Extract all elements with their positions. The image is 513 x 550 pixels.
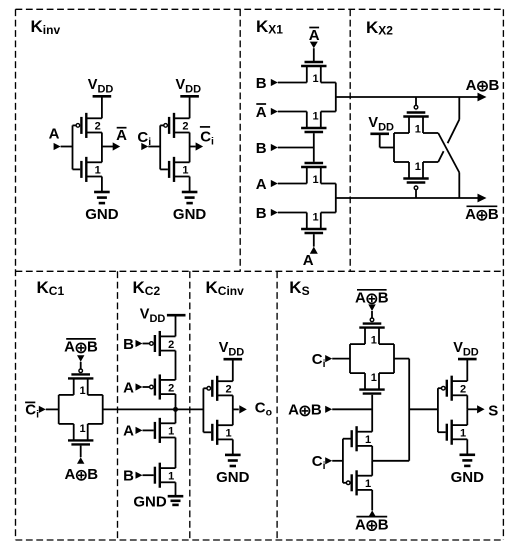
wire S1 upper flare: [350, 343, 394, 345]
wire series rail segments (K_C2): [175, 351, 177, 495]
wire output node to nmos drain (inverter A): [101, 147, 103, 163]
label S (K_S): [488, 402, 498, 419]
svg-text:GND: GND: [451, 469, 485, 486]
transmission gate X1b upper fet channel: [301, 166, 326, 168]
Vdd supply (K_X2 keeper): [368, 115, 394, 134]
transmission gate C1 upper fet channel: [68, 377, 93, 379]
svg-text:B: B: [488, 77, 499, 94]
wire pmos source to output node (inverter A): [101, 133, 103, 147]
label size 2 (inverter Co pull-up): [226, 384, 232, 396]
label size 1 (K_C2 A1): [168, 426, 174, 438]
transmission gate S1 upper gate bar: [363, 322, 382, 324]
svg-text:B: B: [488, 206, 499, 223]
wire S1 source/drain stubs upper: [365, 328, 379, 345]
nmos inverter Co pull-down (size 1): [212, 420, 233, 445]
label size 1 (inverter Ci pull-down): [182, 165, 188, 177]
svg-text:A: A: [465, 206, 476, 223]
wire X1b source/drain stubs lower: [307, 213, 321, 230]
wire C1 source/drain stubs lower: [74, 424, 88, 441]
wire nmos source to ground (inverter S): [466, 439, 468, 455]
svg-text:1: 1: [168, 426, 174, 438]
label AxorB (K_S): [288, 402, 322, 419]
heading K_C1: [37, 278, 65, 298]
svg-text:1: 1: [460, 428, 466, 440]
wire cross-couple lower-right to AxorB line (K_X2): [438, 97, 459, 162]
transmission gate X1b lower gate bar: [305, 232, 324, 234]
svg-text:A: A: [256, 176, 267, 193]
transmission gate X1a lower gate bar: [305, 131, 324, 133]
wire S1 source/drain stubs lower: [365, 373, 379, 390]
wire X1b source/drain stubs upper: [307, 167, 321, 184]
wire gate input (inverter A): [73, 125, 81, 169]
svg-text:1: 1: [365, 478, 371, 490]
wire gate input Ci lower (K_S): [343, 439, 351, 483]
label B (K_C2 row 1): [123, 336, 134, 353]
wire TG1 lower gate to TG2 drain through AxorB node (K_S): [371, 395, 373, 432]
nmos K_C2 B1 (size 1): [155, 463, 176, 488]
label Ci upper (K_S): [312, 351, 326, 370]
node junction carry (K_C2): [173, 407, 178, 412]
svg-text:B: B: [87, 466, 98, 483]
output wire and arrow (inverter A): [102, 142, 120, 150]
svg-text:1: 1: [182, 165, 188, 177]
label size 2 (inverter Ci pull-up): [182, 121, 188, 133]
svg-text:1: 1: [79, 385, 85, 397]
wire S1 lower flare: [350, 372, 394, 374]
svg-text:2: 2: [460, 384, 466, 396]
heading K_X1: [256, 17, 283, 37]
label A (K_C2 row 3): [123, 423, 134, 440]
svg-text:1: 1: [415, 161, 421, 173]
transmission gate X1b lower fet channel: [301, 228, 326, 230]
wire C1 right terminal: [102, 395, 104, 424]
label size 1 (X1b lower): [313, 212, 319, 224]
node arrow Abar into gate (K_X1): [310, 42, 318, 61]
svg-text:B: B: [311, 402, 322, 419]
wire X2 source/drain stubs upper: [409, 117, 423, 134]
wire gate input (inverter Ci): [160, 125, 168, 169]
label size 2 (K_C2 B2): [168, 339, 174, 351]
transmission gate C1 lower fet channel: [68, 439, 93, 441]
label size 1 (inverter A pull-down): [95, 165, 101, 177]
wire gate input A (K_C2 1): [136, 427, 154, 434]
nmos K_C2 A1 (size 1): [155, 418, 176, 443]
input arrow (inverter Ci): [141, 143, 160, 150]
label size 1 (C1 lower): [79, 423, 85, 435]
wire TG2 mid junction vertical (K_S): [371, 461, 373, 476]
label A (bottom control K_X1): [303, 252, 314, 269]
svg-text:A: A: [466, 77, 477, 94]
heading K_C2: [133, 278, 161, 298]
svg-text:B: B: [378, 290, 389, 307]
node arrow AxnorB with bubble (K_C1): [77, 355, 84, 373]
Vdd supply (inverter Ci): [176, 77, 202, 96]
wire X1a source/drain stubs lower: [307, 112, 321, 129]
wire input B5 (K_X1): [271, 209, 307, 216]
wire gate input B (K_C2 2): [136, 340, 150, 347]
svg-text:1: 1: [226, 428, 232, 440]
node arrow AxnorB bottom (K_S): [368, 490, 376, 517]
dashed divider K_inv/K_X1: [239, 9, 241, 271]
svg-text:A: A: [123, 379, 134, 396]
label Abar (top control K_X1): [309, 27, 320, 44]
wire gate input (inverter Co): [203, 388, 211, 432]
transmission gate X1a upper fet channel: [301, 65, 326, 67]
wire pmos source to output node (inverter S): [466, 395, 468, 409]
label A (K_C2 row 2): [123, 379, 134, 396]
label Cibar (K_C1): [25, 401, 39, 420]
pmos inverter A pull-up (size 2): [76, 113, 102, 138]
svg-text:B: B: [123, 468, 134, 485]
nmos inverter A pull-down (size 1): [81, 157, 102, 182]
heading K_inv: [31, 17, 61, 37]
svg-text:GND: GND: [133, 494, 167, 511]
svg-text:B: B: [123, 336, 134, 353]
svg-text:1: 1: [168, 471, 174, 483]
pmos inverter Co pull-up (size 2): [207, 376, 233, 401]
wire X2 left terminal: [393, 133, 395, 162]
label A4 (K_X1): [256, 176, 267, 193]
dashed divider top/bottom rows: [16, 270, 504, 272]
Vdd supply (K_C2): [140, 306, 186, 325]
transmission gate X1a upper gate bar: [305, 61, 324, 63]
svg-text:A: A: [355, 516, 366, 533]
nmos K_S pass upper (size 1): [352, 426, 373, 451]
label size 1 (K_S pass upper): [365, 434, 371, 446]
svg-text:B: B: [256, 140, 267, 157]
svg-text:B: B: [87, 339, 98, 356]
wire X1b lower flare: [307, 212, 336, 214]
wire bus vertical (K_S): [408, 359, 410, 461]
ground (inverter Ci): [173, 192, 207, 223]
wire input B1 (K_X1): [271, 79, 307, 86]
wire pmos source to output node (inverter Ci): [189, 133, 191, 147]
wire X2 lower flare: [394, 161, 438, 163]
label input C (inverter Ci): [137, 129, 151, 148]
svg-text:A: A: [256, 104, 267, 121]
wire output node to nmos drain (inverter Co): [232, 409, 234, 425]
label size 1 (inverter Co pull-down): [226, 428, 232, 440]
svg-text:A: A: [123, 423, 134, 440]
label size 2 (inverter A pull-up): [95, 121, 101, 133]
dashed divider K_X1/K_X2: [349, 9, 351, 271]
wire X2 source/drain stubs lower: [409, 162, 423, 179]
label size 2 (inverter S pull-up): [460, 384, 466, 396]
svg-text:GND: GND: [85, 206, 119, 223]
svg-text:1: 1: [313, 174, 319, 186]
wire nmos source to ground (inverter Ci): [189, 177, 191, 193]
net carry mid rail (K_C1 output to K_Cinv input): [103, 408, 204, 410]
wire output node to nmos drain (inverter Ci): [189, 147, 191, 163]
label B1 (K_X1): [256, 75, 267, 92]
svg-text:1: 1: [79, 423, 85, 435]
label AxnorB (top control K_C1): [64, 339, 98, 356]
node arrow with bubble (K_S TG1 top): [368, 304, 375, 322]
svg-text:GND: GND: [216, 469, 250, 486]
svg-text:A: A: [49, 125, 60, 142]
transmission gate X1a lower fet channel: [301, 127, 326, 129]
wire C1 upper flare: [59, 394, 103, 396]
svg-text:1: 1: [313, 111, 319, 123]
wire C1 source/drain stubs upper: [74, 378, 88, 395]
svg-text:S: S: [488, 402, 498, 419]
label size 1 (X1b upper): [313, 174, 319, 186]
label output Abar (inverter A): [116, 127, 127, 144]
label output Cbar (inverter Ci): [200, 127, 214, 148]
dashed divider K_Cinv/K_S: [276, 271, 278, 540]
wire C1 left terminal: [58, 395, 60, 424]
dashed divider K_C2/K_Cinv: [189, 271, 191, 540]
Vdd supply (inverter A): [88, 77, 114, 96]
wire gate link X1a-lower to X1b-upper through B3: [313, 133, 315, 162]
wire lower gate to AxnorB line with bubble (K_X2): [414, 186, 418, 198]
nmos inverter Ci pull-down (size 1): [169, 157, 190, 182]
label Abar2 (K_X1): [256, 104, 267, 121]
wire output node to nmos drain (inverter S): [466, 409, 468, 425]
wire input B3 (K_X1): [271, 144, 314, 151]
wire S1 left terminal: [349, 344, 351, 373]
svg-text:2: 2: [168, 339, 174, 351]
net A xor B (top line): [336, 93, 487, 102]
svg-text:1: 1: [95, 165, 101, 177]
wire X1a upper flare: [307, 82, 336, 84]
svg-text:1: 1: [371, 372, 377, 384]
wire bus tap to inverter input (K_S): [409, 408, 438, 410]
wire input A4 (K_X1): [271, 180, 307, 187]
transmission gate S1 upper fet channel: [359, 326, 384, 328]
label size 1 (K_C2 B1): [168, 471, 174, 483]
wire upper gate to AxorB line with bubble (K_X2): [414, 97, 418, 113]
output wire and arrow Co (K_Cinv): [233, 405, 247, 413]
wire X1b right terminal: [335, 184, 337, 213]
label input A (inverter A): [49, 125, 60, 142]
wire X1a source/drain stubs upper: [307, 66, 321, 83]
wire Vdd rail (inverter A): [101, 96, 103, 118]
label size 2 (K_C2 A2): [168, 382, 174, 394]
wire TG1 output to bus (K_S): [394, 358, 409, 360]
svg-text:2: 2: [226, 384, 232, 396]
pmos inverter S pull-up (size 2): [442, 376, 468, 401]
label B3 (K_X1): [256, 140, 267, 157]
label B (K_C2 row 4): [123, 468, 134, 485]
svg-text:1: 1: [371, 334, 377, 346]
transmission gate C1 lower gate bar: [71, 443, 90, 445]
label size 1 (S1 upper): [371, 334, 377, 346]
pmos inverter Ci pull-up (size 2): [164, 113, 190, 138]
svg-text:1: 1: [415, 123, 421, 135]
wire Vdd rail (inverter S): [466, 359, 468, 381]
svg-text:B: B: [256, 75, 267, 92]
nmos inverter S pull-down (size 1): [447, 420, 468, 445]
wire nmos source to ground (inverter A): [101, 177, 103, 193]
wire pmos source to output node (inverter Co): [232, 395, 234, 409]
svg-text:2: 2: [182, 121, 188, 133]
svg-text:GND: GND: [173, 206, 207, 223]
label size 1 (S1 lower): [371, 372, 377, 384]
wire Vdd to keeper left terminal (K_X2): [380, 134, 394, 148]
svg-text:1: 1: [313, 73, 319, 85]
Vdd supply (inverter Co): [219, 340, 245, 359]
input arrow (inverter A): [54, 143, 73, 150]
svg-text:2: 2: [168, 382, 174, 394]
svg-text:A: A: [303, 252, 314, 269]
label size 1 (inverter S pull-down): [460, 428, 466, 440]
wire C1 lower flare: [59, 423, 103, 425]
transmission gate X2 upper fet channel: [403, 115, 428, 117]
wire TG2 mid node to bus (K_S): [372, 446, 409, 461]
heading K_S: [289, 278, 309, 298]
svg-text:A: A: [288, 402, 299, 419]
svg-text:A: A: [355, 290, 366, 307]
wire gate input (inverter S): [438, 388, 446, 432]
label AxnorB (bottom right): [465, 206, 499, 223]
wire X2 upper flare: [394, 132, 438, 134]
transmission gate C1 upper gate bar: [71, 373, 90, 375]
svg-text:1: 1: [313, 212, 319, 224]
wire cross-couple upper-right to AxnorB line (K_X2): [438, 133, 459, 198]
label size 1 (X1a upper): [313, 73, 319, 85]
svg-text:1: 1: [365, 434, 371, 446]
wire input Cibar (K_C1): [39, 406, 59, 413]
transmission gate X1b upper gate bar: [305, 162, 324, 164]
output wire and arrow S (K_S): [467, 405, 484, 413]
heading K_X2: [366, 18, 393, 38]
label size 1 (X1a lower): [313, 111, 319, 123]
label AxorB (top right): [466, 77, 500, 94]
transmission gate X2 lower fet channel: [403, 177, 428, 179]
wire nmos source to ground (inverter Co): [232, 439, 234, 455]
wire Vdd rail (inverter Ci): [189, 96, 191, 118]
svg-text:A: A: [64, 339, 75, 356]
wire gate input B (K_C2 1): [136, 472, 154, 479]
dashed divider K_C1/K_C2: [117, 271, 119, 540]
ground (inverter A): [85, 192, 119, 223]
wire gate input A (K_C2 2): [136, 383, 150, 390]
wire input Ci lower arrow (K_S): [325, 457, 343, 464]
svg-text:2: 2: [95, 121, 101, 133]
svg-text:A: A: [116, 127, 127, 144]
transmission gate X2 upper gate bar: [407, 111, 426, 113]
pmos K_C2 A2 (size 2): [150, 374, 176, 399]
label AxorB (bottom control K_C1): [64, 466, 98, 483]
wire X1a lower flare: [307, 111, 336, 113]
net A xnor B (bottom line): [336, 194, 487, 203]
wire input Ci upper (K_S): [325, 355, 350, 362]
wire X1b upper flare: [307, 183, 336, 185]
wire X1a right terminal: [335, 83, 337, 112]
svg-text:A: A: [64, 466, 75, 483]
label Co (K_Cinv): [255, 400, 272, 419]
label B5 (K_X1): [256, 205, 267, 222]
pmos K_S pass lower (size 1): [346, 470, 372, 495]
ground (K_C2): [133, 494, 183, 511]
label size 1 (K_S pass lower): [365, 478, 371, 490]
heading K_Cinv: [206, 278, 245, 298]
pmos K_C2 B2 (size 2): [150, 331, 176, 356]
wire input Abar2 (K_X1): [271, 108, 307, 115]
output wire and arrow (inverter Ci): [190, 142, 204, 150]
label AxnorB (top control K_S): [355, 290, 389, 307]
transmission gate S1 lower gate bar: [363, 392, 382, 394]
transmission gate X2 lower gate bar: [407, 181, 426, 183]
ground (inverter S): [451, 455, 485, 486]
label size 1 (C1 upper): [79, 385, 85, 397]
wire Vdd rail (K_C2): [175, 315, 177, 336]
label size 1 (X2 lower): [415, 161, 421, 173]
wire input AxorB (K_S): [325, 406, 372, 413]
svg-text:B: B: [256, 205, 267, 222]
svg-text:B: B: [378, 516, 389, 533]
node arrow AxorB bottom control (K_C1): [77, 446, 84, 464]
wire Vdd rail (inverter Co): [232, 359, 234, 381]
transmission gate S1 lower fet channel: [359, 388, 384, 390]
wire S1 right terminal: [393, 344, 395, 373]
label Ci lower (K_S): [312, 453, 326, 472]
node arrow A into gate bottom (K_X1): [310, 234, 318, 254]
ground (inverter Co): [216, 455, 250, 486]
label AxnorB (bottom K_S): [355, 516, 389, 533]
label size 1 (X2 upper): [415, 123, 421, 135]
Vdd supply (inverter S): [453, 340, 479, 359]
